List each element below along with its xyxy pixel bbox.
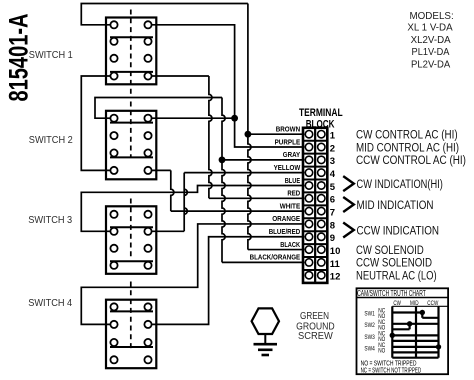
svg-text:SW2: SW2 [364, 322, 375, 329]
switch SW4 contacts row 3 [110, 339, 117, 346]
wire vertical x=171 to white [171, 170, 174, 211]
svg-text:CW SOLENOID: CW SOLENOID [356, 245, 424, 257]
truth chart SW3 state path [392, 334, 438, 336]
switch SW4 contacts row 4 [110, 356, 117, 363]
switch SW1 contacts row 1 [110, 21, 117, 28]
wire ORANGE terminal 8 to sw4-row2-left [81, 224, 304, 324]
wire top bus y=3.5 [81, 4, 248, 25]
svg-text:7: 7 [330, 208, 335, 219]
svg-text:BLACK: BLACK [280, 241, 301, 249]
wire BROWN to terminal 1 [248, 133, 304, 135]
terminal block body [303, 128, 327, 283]
svg-text:4: 4 [330, 169, 336, 180]
wire RED to terminal 6 [209, 197, 304, 199]
wire vertical bus x=248 to terminal 10 [248, 4, 251, 250]
svg-text:6: 6 [330, 195, 335, 206]
terminal block row dividers [303, 140, 327, 142]
svg-text:CCW SOLENOID: CCW SOLENOID [356, 258, 432, 270]
truth chart SW4 state path [392, 346, 438, 348]
chevron MID INDICATION [343, 197, 354, 212]
svg-text:10: 10 [330, 246, 341, 257]
truth chart SW1 state path [392, 311, 422, 313]
truth chart SW2 trip dot [407, 321, 412, 326]
svg-text:SWITCH 4: SWITCH 4 [28, 298, 72, 309]
wire sw2-row1-right to junction [148, 117, 235, 119]
chevron CW INDICATION(HI) [343, 176, 354, 191]
switch SW2 contact bar row 1 [110, 122, 153, 124]
svg-text:YELLOW: YELLOW [274, 164, 301, 172]
svg-text:SCREW: SCREW [298, 331, 333, 342]
svg-text:RED: RED [287, 190, 300, 198]
svg-text:GREEN: GREEN [300, 311, 329, 322]
svg-text:BLUE: BLUE [285, 177, 301, 185]
truth chart bottom rule [392, 357, 438, 359]
svg-text:MID CONTROL AC (HI): MID CONTROL AC (HI) [356, 142, 459, 154]
svg-text:CCW CONTROL AC (HI): CCW CONTROL AC (HI) [356, 155, 466, 167]
wire GRAY to terminal 3 [222, 159, 304, 161]
svg-text:SWITCH 2: SWITCH 2 [29, 135, 73, 146]
switch SW3 contacts row 2 [110, 228, 117, 235]
wire sw3-row2-right going right [148, 230, 184, 232]
terminal 12 screws [305, 272, 312, 279]
wire BLUE/RED terminal 9 to sw4-row2-right [148, 237, 304, 325]
svg-text:GRAY: GRAY [283, 151, 301, 159]
terminal 2 screws [305, 143, 312, 150]
svg-text:XL2V-DA: XL2V-DA [411, 35, 451, 46]
svg-text:MODELS:: MODELS: [409, 11, 453, 22]
switch SW1 box [106, 18, 156, 85]
truth chart CCW position line [437, 306, 439, 357]
switch SW4 contacts row 1 [110, 303, 117, 310]
junction node sw2-row1-right [231, 115, 238, 122]
cam shaft dashed line SW2 [130, 102, 132, 159]
switch SW2 contacts row 2 [110, 132, 117, 139]
wire sw2-row4-right going right [148, 169, 171, 171]
truth chart SW3 trip dot [390, 333, 395, 338]
switch SW4 box [106, 300, 156, 369]
cam shaft dashed line SW3 [130, 199, 132, 259]
svg-text:SW3: SW3 [364, 334, 375, 341]
terminal block center divider [314, 128, 316, 283]
svg-text:PURPLE: PURPLE [275, 138, 301, 146]
switch SW3 contacts row 1 [110, 211, 117, 218]
wire over-top of switch2 [95, 98, 222, 119]
switch SW2 contacts row 4 [110, 167, 117, 174]
switch SW2 contacts row 3 [110, 149, 117, 156]
svg-text:NO = SWITCH TRIPPED: NO = SWITCH TRIPPED [361, 360, 417, 367]
svg-text:CCW INDICATION: CCW INDICATION [357, 225, 440, 237]
wire BLACK/ORANGE to terminal 11 [222, 261, 304, 263]
svg-text:SW4: SW4 [364, 345, 375, 352]
svg-text:9: 9 [330, 233, 335, 244]
cam shaft dashed line SW1 [130, 10, 132, 96]
svg-text:1: 1 [330, 131, 336, 142]
svg-text:SWITCH 1: SWITCH 1 [29, 50, 73, 61]
svg-text:8: 8 [330, 220, 335, 231]
svg-text:SWITCH 3: SWITCH 3 [28, 215, 72, 226]
terminal 3 screws [305, 156, 312, 163]
terminal 1 screws [305, 131, 312, 138]
switch SW3 contacts row 3 [110, 245, 117, 252]
truth chart SW2 state path [392, 323, 438, 325]
switch SW2 contacts row 1 [110, 115, 117, 122]
switch SW1 contact bar row 4 [110, 71, 153, 73]
switch SW2 box [106, 111, 156, 180]
switch SW1 contacts row 4 [110, 72, 117, 79]
junction node terminal3 gray [219, 156, 226, 163]
truth chart outer box [357, 288, 449, 374]
truth chart CW position line [391, 306, 393, 357]
switch SW4 contacts row 2 [110, 321, 117, 328]
terminal 8 screws [305, 220, 312, 227]
wire sw1-row4-right going right [148, 75, 209, 77]
svg-text:CW CONTROL AC (HI): CW CONTROL AC (HI) [356, 130, 458, 142]
svg-text:PL2V-DA: PL2V-DA [411, 59, 450, 70]
switch SW1 contacts row 2 [110, 38, 117, 45]
svg-text:ORANGE: ORANGE [272, 215, 300, 223]
svg-text:5: 5 [330, 182, 336, 193]
truth chart title rule [357, 297, 449, 299]
wire WHITE to terminal 7 [171, 210, 304, 212]
wire sw1-row4-left to sw2-row4-left [81, 76, 114, 170]
svg-text:11: 11 [330, 259, 341, 270]
cam shaft dashed line SW4 [130, 282, 132, 349]
truth chart MID position line [415, 306, 417, 357]
wire vertical x=209 to red [209, 76, 212, 198]
wire YELLOW to terminal 4 [184, 172, 304, 174]
svg-text:BLACK/ORANGE: BLACK/ORANGE [250, 254, 301, 262]
switch SW1 contacts row 3 [110, 55, 117, 62]
wire vertical bus x=222 to terminal 11 [222, 98, 225, 263]
junction node terminal1 brown [245, 131, 252, 138]
switch SW3 contact bar row 4 [110, 260, 153, 262]
wire PURPLE to terminal 2 [148, 25, 304, 147]
svg-text:12: 12 [330, 272, 341, 283]
wire vertical x=184 to yellow [184, 173, 187, 232]
truth chart header rule [392, 305, 448, 307]
switch SW3 box [106, 206, 156, 273]
svg-text:TERMINAL: TERMINAL [299, 107, 343, 119]
wire BLUE to terminal 5 [81, 185, 304, 231]
svg-text:NEUTRAL AC (LO): NEUTRAL AC (LO) [356, 270, 437, 282]
svg-text:BLUE/RED: BLUE/RED [269, 228, 301, 236]
terminal 6 screws [305, 195, 312, 202]
switch SW3 contacts row 4 [110, 262, 117, 269]
svg-text:BROWN: BROWN [276, 126, 301, 134]
terminal 4 screws [305, 169, 312, 176]
svg-text:CAM/SWITCH TRUTH CHART: CAM/SWITCH TRUTH CHART [357, 289, 426, 298]
switch SW4 contact bar row 3 [110, 346, 153, 348]
svg-text:NC = SWITCH NOT TRIPPED: NC = SWITCH NOT TRIPPED [361, 367, 422, 374]
switch SW2 contact bar row 3 [110, 156, 153, 158]
svg-text:SW1: SW1 [364, 311, 375, 318]
svg-text:NO: NO [378, 348, 385, 355]
switch SW3 contact bar row 2 [110, 226, 153, 228]
svg-text:PL1V-DA: PL1V-DA [412, 47, 450, 58]
terminal 9 screws [305, 233, 312, 240]
svg-text:CW INDICATION(HI): CW INDICATION(HI) [357, 179, 443, 191]
terminal 11 screws [305, 259, 312, 266]
terminal 10 screws [305, 246, 312, 253]
switch SW4 contact bar row 1 [110, 310, 153, 312]
svg-text:WHITE: WHITE [280, 202, 301, 210]
svg-text:2: 2 [330, 143, 335, 154]
ground symbol [264, 334, 266, 344]
truth chart SW1 trip dot [420, 310, 425, 315]
terminal 7 screws [305, 207, 312, 214]
truth chart SW4 trip dot [436, 344, 441, 349]
svg-text:MID INDICATION: MID INDICATION [357, 200, 434, 212]
svg-text:3: 3 [330, 156, 335, 167]
chevron CCW INDICATION [343, 223, 354, 238]
terminal 5 screws [305, 182, 312, 189]
svg-text:XL 1 V-DA: XL 1 V-DA [407, 23, 452, 34]
green ground screw hexagon [252, 308, 279, 334]
wire BLACK to terminal 10 [248, 249, 304, 251]
switch SW1 contact bar row 2 [110, 36, 153, 38]
